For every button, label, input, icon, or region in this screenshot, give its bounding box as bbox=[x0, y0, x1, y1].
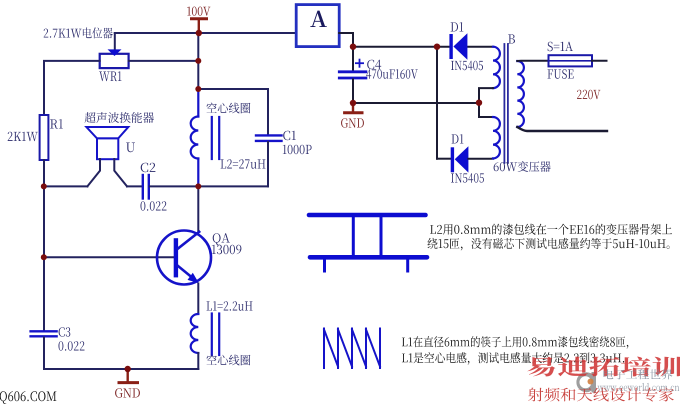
wire tank right lower bbox=[267, 142, 269, 186]
label IN5405 bottom bbox=[451, 173, 484, 183]
wire pot left terminal to left bus bbox=[44, 61, 100, 116]
note L2 line2 bbox=[428, 238, 670, 251]
wire ammeter right to C4 node bbox=[339, 33, 353, 47]
wire C3 to bottom rail bbox=[44, 338, 198, 370]
label IN5405 top bbox=[451, 61, 483, 70]
wire collector vertical bbox=[197, 186, 199, 231]
resistor R1 bbox=[40, 115, 49, 160]
wire transducer right leg bbox=[114, 159, 127, 186]
label C3 value 0.022 bbox=[59, 341, 85, 351]
wire top winding to center tap bbox=[479, 88, 493, 103]
label 220V bbox=[577, 90, 600, 100]
label R1 bbox=[50, 119, 63, 128]
watermark yiditapeixun bbox=[527, 357, 680, 377]
label C2 value 0.022 bbox=[141, 201, 167, 211]
transformer primary top winding bbox=[493, 47, 500, 88]
wire diode D1 bottom anode to transformer bbox=[468, 158, 493, 160]
label GND top bbox=[341, 118, 364, 128]
watermark eeworld url bbox=[598, 383, 680, 391]
transformer core bbox=[504, 44, 508, 163]
wire to diode D1 bottom bbox=[437, 158, 451, 160]
wire transducer to C2 bbox=[127, 185, 142, 187]
wire C2 to tank bottom bbox=[150, 185, 268, 187]
label C2 bbox=[141, 163, 156, 173]
watermark rf antenna experts bbox=[528, 388, 674, 402]
wire secondary top to fuse bbox=[517, 60, 548, 62]
watermark logo d bbox=[576, 372, 596, 393]
label D1 bottom bbox=[452, 134, 464, 143]
note L2 line1 bbox=[430, 224, 672, 235]
label 2.7K1W potentiometer bbox=[44, 27, 113, 38]
label air-core coil L2 bbox=[206, 103, 250, 114]
label C1 bbox=[283, 131, 296, 141]
watermark eeworld cn bbox=[604, 369, 673, 379]
label L2=27uH bbox=[221, 159, 266, 169]
wire diode D1 top anode to transformer bbox=[467, 46, 493, 48]
note L1 line1 bbox=[402, 336, 628, 349]
note L1 line2 bbox=[402, 352, 624, 365]
ground symbol top bbox=[345, 104, 362, 113]
diode D1 top bbox=[449, 33, 467, 60]
capacitor C1 bbox=[256, 135, 282, 141]
wire transducer left leg bbox=[87, 159, 100, 186]
wire pot right terminal to main vertical bbox=[129, 60, 199, 62]
power rail 100V bar bbox=[192, 19, 207, 31]
wire horizontal row y=186 left of transducer bbox=[44, 185, 87, 187]
label GND bottom bbox=[115, 388, 140, 398]
capacitor C2 bbox=[143, 175, 149, 199]
label air-core coil L1 bbox=[206, 355, 250, 366]
label D1 top bbox=[451, 22, 464, 31]
wire main vertical 100V down to tank top bbox=[197, 33, 199, 89]
label B transformer bbox=[508, 34, 515, 43]
label 60W transformer bbox=[494, 161, 551, 172]
wire emitter vertical bbox=[197, 284, 199, 315]
capacitor C4 electrolytic bbox=[339, 47, 366, 103]
label 13009 bbox=[212, 245, 242, 255]
label C4 value 470uF160V bbox=[366, 69, 418, 79]
ammeter U1 box A bbox=[296, 5, 339, 47]
transistor QA 13009 bbox=[157, 231, 211, 285]
wire center tap down to bottom winding bbox=[479, 103, 493, 117]
inductor L1 air-core coil bbox=[191, 314, 220, 356]
wire left bus R1 to C3 bbox=[43, 160, 45, 331]
wire fuse to mains bbox=[592, 60, 607, 62]
label C3 bbox=[59, 327, 71, 337]
label ultrasonic transducer bbox=[85, 112, 154, 123]
label WR1 bbox=[99, 71, 121, 81]
label C1 value 1000P bbox=[283, 145, 312, 155]
potentiometer WR1 bbox=[100, 49, 129, 68]
wire node to diode branch bbox=[353, 46, 449, 48]
wire base from left bus bbox=[44, 256, 174, 258]
site text Q606.COM bbox=[0, 391, 56, 404]
capacitor C3 bbox=[31, 331, 57, 336]
label U bbox=[126, 143, 135, 153]
inductor L2 air-core coil bbox=[191, 89, 220, 186]
wire tank right upper bbox=[267, 89, 269, 135]
label FUSE bbox=[548, 69, 574, 79]
diode D1 bottom bbox=[451, 146, 469, 172]
zigzag figure L1 winding bbox=[324, 329, 380, 369]
ground symbol bottom bbox=[119, 369, 138, 383]
label 100V bbox=[187, 7, 210, 16]
wire potentiometer wiper stub bbox=[114, 33, 116, 50]
wire L1 to bottom rail bbox=[197, 353, 199, 369]
label S=1A bbox=[548, 42, 573, 52]
transformer primary bottom winding bbox=[493, 117, 500, 158]
bobbin figure EE16 former bbox=[309, 215, 427, 271]
transformer secondary winding bbox=[517, 61, 524, 127]
wire tank top bbox=[198, 88, 268, 90]
label C4 bbox=[367, 60, 381, 69]
label L1=2.2uH bbox=[207, 301, 253, 311]
wire top rail to ammeter bbox=[115, 32, 296, 34]
wire diode branch vertical bbox=[436, 47, 438, 159]
wire secondary bottom to mains bbox=[517, 127, 607, 131]
label 2K1W bbox=[8, 132, 38, 141]
ammeter letter A bbox=[310, 11, 327, 27]
label QA bbox=[213, 233, 230, 245]
wire ground rail to transformer center tap bbox=[353, 102, 479, 104]
ultrasonic transducer U bbox=[86, 127, 128, 159]
fuse S=1A bbox=[549, 55, 593, 66]
